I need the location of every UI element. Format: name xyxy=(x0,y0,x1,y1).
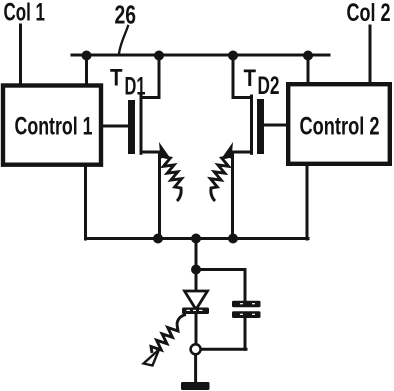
svg-text:D2: D2 xyxy=(258,72,280,100)
svg-text:26: 26 xyxy=(115,0,137,30)
svg-text:Control 2: Control 2 xyxy=(300,113,380,141)
svg-text:Col 1: Col 1 xyxy=(4,0,46,27)
svg-text:D1: D1 xyxy=(125,73,146,101)
svg-text:Control 1: Control 1 xyxy=(15,113,93,141)
svg-text:T: T xyxy=(244,65,257,92)
svg-text:Col 2: Col 2 xyxy=(347,0,391,27)
svg-text:T: T xyxy=(110,65,123,92)
